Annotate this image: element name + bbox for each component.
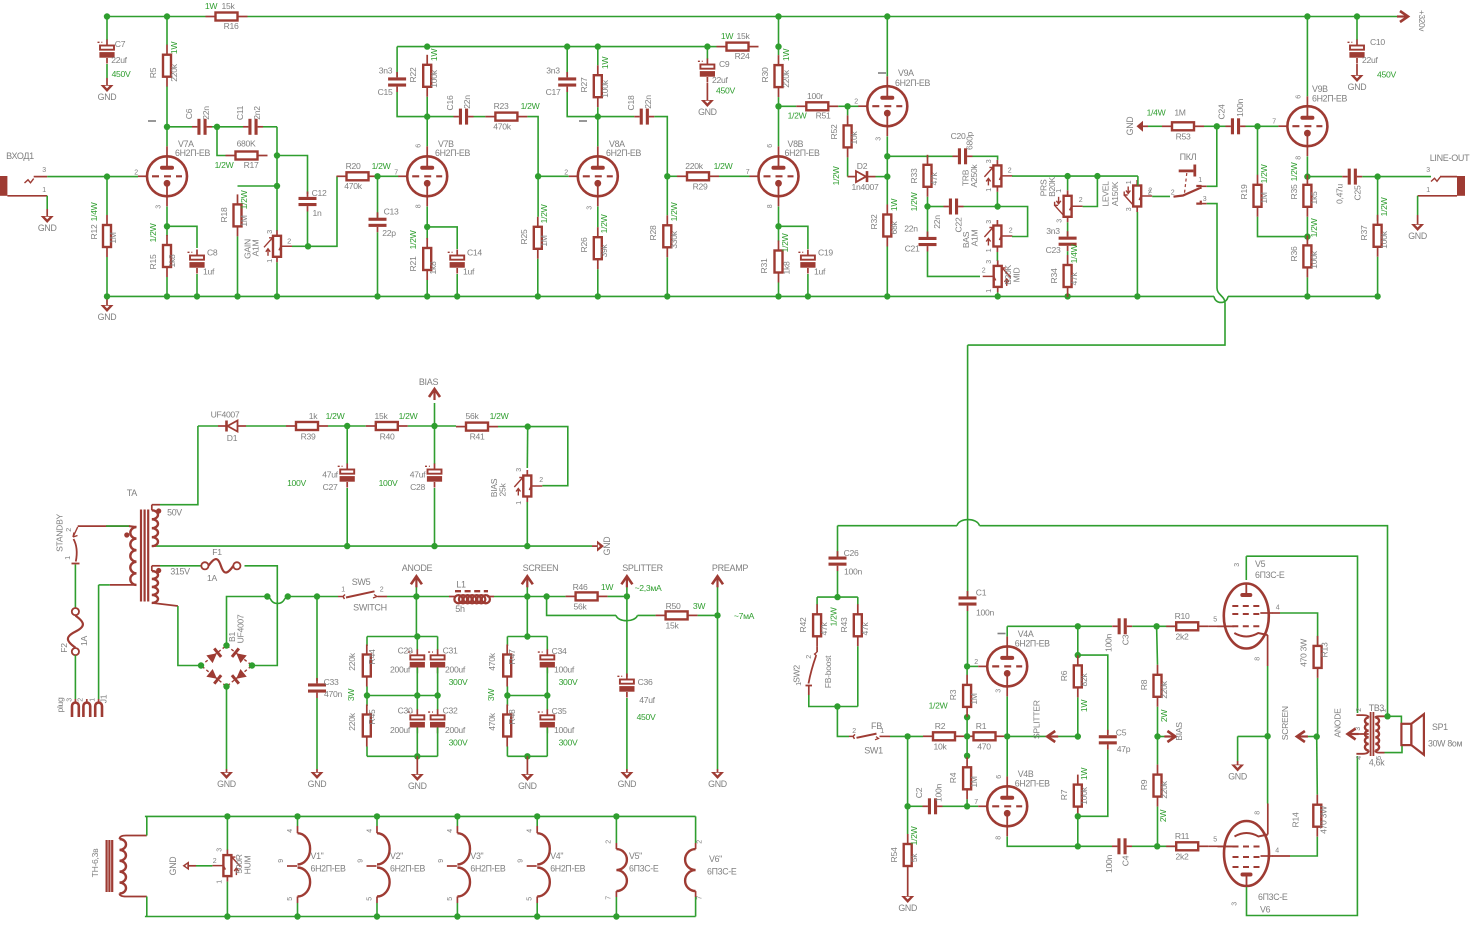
wire bank2 mid rail bbox=[507, 668, 547, 696]
svg-text:47k: 47k bbox=[819, 622, 829, 636]
svg-text:680p: 680p bbox=[965, 132, 975, 150]
svg-text:R28: R28 bbox=[648, 225, 658, 240]
svg-text:UF4007: UF4007 bbox=[236, 614, 246, 643]
svg-text:6: 6 bbox=[996, 775, 1003, 779]
svg-text:3n3: 3n3 bbox=[546, 66, 560, 76]
junction heater rails V3" bbox=[454, 813, 460, 920]
svg-text:3: 3 bbox=[1203, 196, 1207, 203]
svg-text:3: 3 bbox=[156, 205, 163, 209]
svg-text:100k: 100k bbox=[429, 69, 439, 87]
svg-text:F1: F1 bbox=[212, 547, 222, 557]
svg-text:6: 6 bbox=[1296, 95, 1303, 99]
junction V7A cathode bbox=[164, 223, 170, 229]
resistor R20 bbox=[337, 161, 392, 191]
svg-text:3: 3 bbox=[67, 698, 74, 702]
svg-text:R22: R22 bbox=[408, 67, 418, 82]
svg-text:3W: 3W bbox=[486, 688, 496, 701]
junction R7 bottom C5 bbox=[1075, 813, 1081, 819]
resistor R39 bbox=[246, 411, 347, 442]
svg-text:GND: GND bbox=[698, 107, 717, 117]
svg-text:1: 1 bbox=[217, 880, 224, 884]
tube heater V4" bbox=[518, 816, 586, 916]
capacitor C19 bbox=[798, 248, 833, 295]
resistor R30 bbox=[760, 48, 791, 104]
svg-text:22n: 22n bbox=[932, 215, 942, 229]
svg-text:56k: 56k bbox=[574, 602, 588, 612]
svg-text:R31: R31 bbox=[759, 258, 769, 273]
svg-text:3: 3 bbox=[586, 206, 593, 210]
transformer TA primary bbox=[106, 488, 137, 585]
svg-text:C36: C36 bbox=[638, 677, 653, 687]
resistor R37 bbox=[1359, 177, 1389, 294]
svg-text:GND: GND bbox=[1125, 117, 1135, 136]
svg-text:47uf: 47uf bbox=[322, 470, 338, 480]
resistor R45 bbox=[347, 696, 377, 757]
svg-text:6Н2П-ЕВ: 6Н2П-ЕВ bbox=[435, 148, 470, 158]
junction TRB line PRS bbox=[1094, 173, 1100, 179]
svg-text:TН-6,3в: TН-6,3в bbox=[90, 848, 100, 877]
capacitor C21 bbox=[904, 207, 980, 277]
wire cap bank top rail bbox=[367, 636, 438, 638]
ground GND C36 bbox=[618, 772, 637, 789]
svg-text:4: 4 bbox=[447, 829, 454, 833]
svg-text:TA: TA bbox=[127, 488, 138, 498]
svg-text:22uf: 22uf bbox=[1362, 55, 1378, 65]
svg-text:SW2: SW2 bbox=[792, 665, 802, 683]
node SCREEN arrow bbox=[522, 563, 559, 597]
resistor R17 bbox=[215, 127, 268, 170]
svg-text:7: 7 bbox=[394, 170, 398, 177]
svg-text:9: 9 bbox=[518, 859, 525, 863]
wire anode node down to cap bank bbox=[415, 597, 417, 635]
wire V4B cathode row bbox=[1007, 837, 1112, 847]
svg-text:GND: GND bbox=[618, 779, 637, 789]
svg-text:1W: 1W bbox=[205, 1, 218, 11]
svg-text:100V: 100V bbox=[287, 478, 306, 488]
svg-text:6Н2П-ЕВ: 6Н2П-ЕВ bbox=[311, 864, 346, 874]
svg-text:PREAMP: PREAMP bbox=[712, 563, 749, 573]
tube heater V5" bbox=[606, 816, 659, 916]
svg-text:2W: 2W bbox=[1158, 809, 1168, 822]
wire V7B anode bbox=[426, 117, 428, 147]
svg-text:22n: 22n bbox=[201, 106, 211, 120]
junction R2 R1 bbox=[964, 733, 970, 739]
junction R4 top bbox=[964, 753, 970, 759]
wire V9A cathode bbox=[886, 136, 888, 154]
wire screen node down to C36 bbox=[626, 596, 628, 677]
node SCREEN arrow right section bbox=[1280, 706, 1317, 742]
ground GND B1 bbox=[217, 772, 236, 789]
svg-text:3n3: 3n3 bbox=[379, 66, 393, 76]
svg-text:47k: 47k bbox=[929, 172, 939, 186]
svg-text:C22: C22 bbox=[954, 217, 964, 232]
svg-text:R14: R14 bbox=[1291, 812, 1301, 827]
wire PKL pin1 to C24 node bbox=[1207, 126, 1217, 186]
svg-text:300V: 300V bbox=[559, 677, 578, 687]
potentiometer TRB A250k bbox=[961, 159, 1013, 192]
junction cap bank top bbox=[414, 633, 420, 639]
wire V8A anode up bbox=[597, 117, 599, 147]
wire PRS pin1 up bbox=[1067, 176, 1069, 190]
wire to GAIN pin3 bbox=[276, 186, 278, 231]
svg-text:6Н2П-ЕВ: 6Н2П-ЕВ bbox=[606, 148, 641, 158]
svg-text:1/2W: 1/2W bbox=[909, 825, 919, 845]
svg-text:1: 1 bbox=[1381, 709, 1388, 713]
junction C2 left bbox=[904, 803, 910, 809]
svg-text:HUM: HUM bbox=[243, 856, 253, 875]
wire R6 top branch bbox=[1077, 626, 1079, 653]
wire BAS pin1 to MID pin3 bbox=[996, 252, 998, 261]
svg-text:2: 2 bbox=[539, 477, 543, 484]
svg-text:1W: 1W bbox=[1079, 767, 1089, 780]
wire TRB pin1 down bbox=[996, 192, 998, 204]
junction B1 corners bbox=[198, 642, 255, 689]
svg-text:2: 2 bbox=[1356, 708, 1363, 712]
svg-text:1/2W: 1/2W bbox=[539, 203, 549, 223]
svg-text:A150K: A150K bbox=[1110, 181, 1120, 206]
junction ground rail x=277 bbox=[274, 293, 280, 299]
svg-text:~2,3мА: ~2,3мА bbox=[635, 583, 662, 593]
svg-text:100uf: 100uf bbox=[554, 665, 575, 675]
svg-text:100V: 100V bbox=[379, 478, 398, 488]
svg-text:470 3W: 470 3W bbox=[1299, 638, 1309, 667]
wire V8B anode bbox=[778, 106, 780, 146]
tube V4A 6H2П-ЕВ bbox=[974, 629, 1050, 696]
svg-text:1uf: 1uf bbox=[203, 267, 215, 277]
svg-text:1/2W: 1/2W bbox=[399, 411, 419, 421]
junction ground rail x=427.2 bbox=[424, 293, 430, 299]
svg-text:1W: 1W bbox=[1079, 699, 1089, 712]
svg-text:GND: GND bbox=[518, 781, 537, 791]
resistor R32 bbox=[869, 177, 899, 294]
wire SW1 to R2 bbox=[890, 735, 923, 737]
svg-text:R48: R48 bbox=[507, 709, 517, 724]
svg-text:C24: C24 bbox=[1217, 104, 1227, 119]
potentiometer GAIN A1M bbox=[243, 230, 293, 294]
tube heater V3" bbox=[438, 816, 506, 916]
svg-text:1/2W: 1/2W bbox=[521, 101, 541, 111]
capacitor C20 bbox=[951, 131, 998, 164]
node ANODE arrow right section bbox=[1333, 708, 1359, 740]
resistor R24 bbox=[707, 31, 758, 61]
wire primary bottom to plug pin1 bbox=[99, 585, 110, 699]
wire R20 to V7B grid bbox=[378, 175, 399, 177]
svg-text:R46: R46 bbox=[573, 582, 588, 592]
svg-text:200uf: 200uf bbox=[445, 665, 466, 675]
junction heater rails V5" bbox=[613, 813, 619, 920]
svg-text:5: 5 bbox=[527, 897, 534, 901]
svg-text:220k: 220k bbox=[781, 69, 791, 87]
svg-text:100k: 100k bbox=[600, 79, 610, 97]
svg-text:1M: 1M bbox=[108, 232, 118, 243]
svg-text:A1M: A1M bbox=[970, 229, 980, 246]
wire V5 screen to R13 bbox=[1272, 605, 1318, 645]
capacitor C30 bbox=[390, 696, 425, 736]
wire FB node down to SW1 bbox=[837, 707, 849, 737]
svg-text:R9: R9 bbox=[1139, 779, 1149, 790]
svg-text:1M: 1M bbox=[969, 693, 979, 704]
svg-text:GND: GND bbox=[217, 779, 236, 789]
wire jack sleeve bbox=[46, 196, 48, 209]
wire second rail bbox=[397, 46, 707, 48]
junction V8A anode node bbox=[595, 113, 601, 119]
svg-text:1M: 1M bbox=[1259, 192, 1269, 203]
svg-text:47k: 47k bbox=[1069, 272, 1079, 286]
junction hop right bbox=[285, 593, 291, 599]
resistor R2 bbox=[923, 721, 965, 752]
junction R5-C6 bbox=[164, 124, 170, 130]
svg-text:1M: 1M bbox=[239, 215, 249, 226]
svg-text:3: 3 bbox=[42, 167, 46, 174]
svg-text:2: 2 bbox=[380, 587, 384, 594]
svg-text:220k: 220k bbox=[685, 161, 703, 171]
svg-text:R17: R17 bbox=[244, 160, 259, 170]
svg-text:1/2W: 1/2W bbox=[599, 213, 609, 233]
wire V5 cathode down bbox=[1267, 666, 1269, 734]
svg-text:C11: C11 bbox=[235, 105, 245, 120]
svg-text:2: 2 bbox=[66, 528, 73, 532]
svg-text:450V: 450V bbox=[112, 69, 131, 79]
wire 315V to bridge AC left bbox=[178, 606, 201, 666]
resistor R50 bbox=[656, 601, 716, 631]
svg-text:R6: R6 bbox=[1059, 670, 1069, 681]
svg-text:V5": V5" bbox=[629, 851, 642, 861]
junction V4A grid node bbox=[964, 663, 970, 669]
junction second rail C9 bbox=[704, 43, 710, 49]
capacitor C9 bbox=[698, 47, 736, 100]
resistor R51 bbox=[779, 91, 839, 121]
svg-text:1: 1 bbox=[516, 501, 523, 505]
svg-text:2: 2 bbox=[852, 728, 856, 735]
junction ground rail x=887.3 bbox=[884, 293, 890, 299]
junction V4A cathode R1 V4B anode bbox=[1004, 733, 1010, 739]
svg-text:100n: 100n bbox=[976, 608, 994, 618]
svg-text:2: 2 bbox=[1079, 197, 1083, 204]
svg-text:2: 2 bbox=[564, 170, 568, 177]
capacitor C28 bbox=[379, 426, 443, 544]
svg-text:SP1: SP1 bbox=[1432, 722, 1448, 732]
junction R53 C24 PKL bbox=[1214, 123, 1220, 129]
svg-text:56k: 56k bbox=[466, 411, 480, 421]
svg-text:R13: R13 bbox=[1320, 642, 1330, 657]
svg-text:100uf: 100uf bbox=[554, 725, 575, 735]
svg-text:SWITCH: SWITCH bbox=[353, 603, 387, 613]
resistor R31 bbox=[759, 226, 792, 294]
tube heater V6" bbox=[685, 816, 737, 916]
svg-text:1A: 1A bbox=[79, 635, 89, 645]
wire B1 minus to GND bbox=[226, 687, 228, 773]
svg-text:3: 3 bbox=[217, 848, 224, 852]
svg-text:1/2W: 1/2W bbox=[408, 229, 418, 249]
svg-text:3: 3 bbox=[1426, 167, 1430, 174]
switch STANDBY bbox=[55, 514, 107, 564]
svg-text:R4: R4 bbox=[948, 772, 958, 783]
svg-text:R32: R32 bbox=[869, 214, 879, 229]
svg-text:2: 2 bbox=[1171, 190, 1175, 197]
svg-text:1: 1 bbox=[341, 587, 345, 594]
svg-text:3: 3 bbox=[986, 260, 993, 264]
capacitor C7 bbox=[98, 17, 132, 86]
junction top rail V8B column bbox=[775, 13, 781, 19]
junction ground rail x=1307.4 bbox=[1304, 293, 1310, 299]
svg-text:4: 4 bbox=[1275, 848, 1279, 855]
capacitor C2 bbox=[908, 784, 965, 815]
junction input node bbox=[104, 173, 110, 179]
junction C2 right V4B grid bbox=[964, 803, 970, 809]
wire C5 top branch bbox=[1078, 655, 1108, 733]
svg-text:R26: R26 bbox=[579, 237, 589, 252]
svg-text:1/2W: 1/2W bbox=[829, 606, 839, 626]
wire F1 to bridge AC bbox=[245, 566, 278, 666]
svg-text:1/2W: 1/2W bbox=[1379, 196, 1389, 216]
svg-text:9: 9 bbox=[358, 859, 365, 863]
junction ground rail x=197 bbox=[194, 293, 200, 299]
wire heater top rail bbox=[145, 815, 696, 817]
wire V9B cathode bbox=[1306, 156, 1308, 174]
svg-text:R52: R52 bbox=[829, 124, 839, 139]
node +320v arrow bbox=[1397, 10, 1426, 32]
junction ground rail x=667.3 bbox=[664, 293, 670, 299]
svg-text:82k: 82k bbox=[1079, 673, 1089, 687]
svg-text:R11: R11 bbox=[1175, 831, 1190, 841]
svg-text:22p: 22p bbox=[382, 228, 396, 238]
tube V6 6П3С-Е bbox=[1218, 804, 1288, 915]
svg-text:100k: 100k bbox=[1079, 786, 1089, 804]
svg-text:1uf: 1uf bbox=[814, 267, 826, 277]
svg-text:C6: C6 bbox=[184, 108, 194, 119]
junction V8B cathode bbox=[775, 223, 781, 229]
svg-text:C19: C19 bbox=[818, 248, 833, 258]
svg-text:C32: C32 bbox=[443, 706, 458, 716]
junction TB3 secondary feedback bbox=[1384, 713, 1390, 719]
node BIAS arrow right section bbox=[1158, 722, 1185, 742]
wire R29 to V8B grid bbox=[719, 175, 750, 177]
wire node down bbox=[276, 156, 278, 187]
capacitor C5 bbox=[1080, 728, 1131, 817]
inductor L1 5h bbox=[416, 580, 494, 615]
svg-text:8: 8 bbox=[416, 204, 423, 208]
svg-text:1: 1 bbox=[1056, 189, 1063, 193]
svg-text:1W: 1W bbox=[601, 582, 614, 592]
svg-text:R44: R44 bbox=[367, 649, 377, 664]
svg-text:R25: R25 bbox=[519, 229, 529, 244]
svg-text:6Н2П-ЕВ: 6Н2П-ЕВ bbox=[390, 864, 425, 874]
svg-text:220k: 220k bbox=[169, 63, 179, 81]
svg-text:3: 3 bbox=[1231, 902, 1238, 906]
svg-text:R41: R41 bbox=[470, 432, 485, 442]
svg-text:47k: 47k bbox=[860, 622, 870, 636]
resistor R25 bbox=[519, 176, 549, 294]
svg-text:V3": V3" bbox=[470, 851, 483, 861]
wire V8A cathode bbox=[597, 207, 599, 228]
svg-text:1/4W: 1/4W bbox=[1147, 108, 1167, 118]
capacitor C10 bbox=[1348, 17, 1397, 80]
junction screen output node bbox=[1314, 733, 1320, 739]
wire node to C12 bbox=[277, 156, 308, 195]
svg-text:200uf: 200uf bbox=[390, 665, 411, 675]
resistor R9 bbox=[1139, 737, 1169, 847]
svg-text:1: 1 bbox=[1426, 187, 1430, 194]
svg-text:R16: R16 bbox=[224, 21, 239, 31]
fuse F1 bbox=[160, 547, 240, 583]
svg-text:5: 5 bbox=[367, 897, 374, 901]
svg-text:1k8: 1k8 bbox=[782, 261, 792, 274]
transformer TA secondary 315V bbox=[152, 566, 190, 606]
svg-text:470: 470 bbox=[977, 742, 991, 752]
svg-text:V9B: V9B bbox=[1312, 84, 1328, 94]
tube V9A 6H2П-ЕВ bbox=[854, 68, 930, 141]
wire to V9A grid bbox=[848, 105, 859, 107]
svg-text:2: 2 bbox=[287, 237, 291, 246]
svg-text:47uf: 47uf bbox=[410, 470, 426, 480]
capacitor C27 bbox=[287, 426, 355, 544]
svg-text:5k: 5k bbox=[909, 853, 919, 862]
capacitor C15 bbox=[378, 47, 425, 117]
svg-text:4: 4 bbox=[1356, 756, 1363, 760]
diode D2 1n4007 bbox=[831, 161, 887, 192]
svg-text:R40: R40 bbox=[380, 432, 395, 442]
svg-text:1: 1 bbox=[986, 188, 993, 192]
resistor R42 bbox=[798, 597, 839, 646]
switch SW2 FB-boost bbox=[792, 646, 834, 695]
wire R23 to V8A grid node bbox=[527, 117, 538, 174]
svg-text:7: 7 bbox=[606, 896, 613, 900]
speaker SP1 bbox=[1401, 714, 1462, 755]
svg-text:2: 2 bbox=[134, 170, 138, 177]
junction bank2 top bbox=[524, 633, 530, 639]
node SPLITTER arrow bbox=[621, 563, 663, 596]
svg-text:2: 2 bbox=[982, 268, 986, 275]
potentiometer HUM 500R bbox=[212, 816, 252, 916]
svg-text:7: 7 bbox=[746, 169, 750, 176]
ground GND preamp branch bbox=[708, 772, 727, 789]
wire V4A cathode bbox=[1006, 697, 1008, 735]
svg-text:C31: C31 bbox=[443, 646, 458, 656]
svg-text:10k: 10k bbox=[934, 742, 948, 752]
svg-text:R29: R29 bbox=[693, 182, 708, 192]
resistor R6 bbox=[1059, 655, 1089, 734]
svg-text:220k: 220k bbox=[1159, 780, 1169, 798]
resistor R43 bbox=[839, 597, 870, 706]
svg-text:9: 9 bbox=[278, 859, 285, 863]
wire V9A anode to top rail bbox=[886, 17, 888, 77]
junction bank2 mid C34 bbox=[544, 692, 550, 698]
svg-text:~7мА: ~7мА bbox=[734, 611, 755, 621]
junction ground rail x=107 bbox=[104, 293, 110, 299]
ground GND output cathodes bbox=[1228, 765, 1247, 782]
ground GND rail bbox=[98, 296, 117, 321]
resistor R4 bbox=[948, 757, 979, 806]
svg-text:1: 1 bbox=[986, 289, 993, 293]
capacitor C18 bbox=[598, 95, 668, 174]
svg-text:15k: 15k bbox=[737, 31, 751, 41]
svg-text:R23: R23 bbox=[494, 101, 509, 111]
svg-text:R18: R18 bbox=[219, 207, 229, 222]
svg-text:1/2W: 1/2W bbox=[1309, 217, 1319, 237]
junction R30 bottom bbox=[775, 103, 781, 109]
svg-text:1/2W: 1/2W bbox=[909, 191, 919, 211]
node SPLITTER arrow right section bbox=[1007, 700, 1078, 742]
svg-text:C35: C35 bbox=[552, 706, 567, 716]
svg-text:R37: R37 bbox=[1359, 225, 1369, 240]
svg-text:8: 8 bbox=[1296, 156, 1303, 160]
wire bias ground rail bbox=[156, 545, 592, 547]
svg-text:R15: R15 bbox=[148, 254, 158, 269]
capacitor C4 bbox=[1104, 838, 1132, 873]
svg-text:GND: GND bbox=[1348, 82, 1367, 92]
svg-text:100n: 100n bbox=[844, 567, 862, 577]
resistor R40 bbox=[347, 411, 418, 442]
